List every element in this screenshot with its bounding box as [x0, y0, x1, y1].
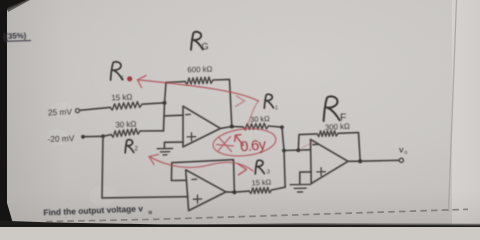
U3 plus pin label: [193, 195, 201, 203]
label RF handwritten: [324, 96, 340, 121]
label RG handwritten: [191, 32, 203, 50]
op-amp U3 triangle: [186, 170, 226, 211]
photo dark left edge: [0, 0, 28, 227]
resistor R1 15k body: [110, 102, 142, 110]
svg-text:o: o: [405, 150, 408, 156]
footer: Find the output voltage vo: [43, 203, 152, 217]
wire Rb to column: [272, 187, 286, 190]
red chevron at R3: [238, 164, 247, 175]
torn perforation dash line: [46, 209, 468, 221]
label R2 handwritten: [125, 140, 134, 153]
red X scribble on U1 output: [217, 137, 234, 152]
wire long drop to follower: [102, 136, 103, 198]
wire U3 feedback loop: [171, 160, 234, 193]
wire RG to right vertical: [213, 79, 232, 126]
red arrow to U1 output node: [235, 135, 244, 146]
svg-text:25 mV: 25 mV: [48, 107, 73, 118]
node: 25 mV input terminal: [76, 109, 80, 113]
resistor R3 15k body: [249, 187, 272, 193]
node D column mid dot: [282, 149, 286, 153]
U1 minus pin label: [186, 113, 191, 115]
op-amp U1 triangle: [183, 106, 221, 147]
wire R3 to column: [269, 126, 283, 127]
ground G2: [290, 184, 310, 192]
svg-text:o: o: [148, 210, 152, 216]
U2 plus pin label: [317, 168, 325, 176]
U1 plus pin label: [187, 133, 195, 141]
wire RF feedback left/top: [298, 134, 317, 150]
svg-text:F: F: [340, 112, 346, 124]
red long arrow from answer to R1: [246, 101, 259, 131]
svg-text:|(35%): |(35%): [3, 31, 27, 41]
photo dark bottom edge: [0, 221, 480, 227]
node: -20 mV input terminal: [81, 135, 85, 139]
node U1 output feedback dot: [230, 125, 234, 129]
wire -20mV to junction: [85, 135, 103, 137]
red ellipse around 0.64: [212, 126, 277, 159]
svg-text:15 kΩ: 15 kΩ: [111, 92, 133, 102]
svg-text:1: 1: [275, 106, 278, 112]
label R1 (stage2 30k) handwritten: [264, 94, 273, 108]
svg-text:3: 3: [267, 170, 270, 176]
node C column top dot: [280, 125, 284, 129]
wire U1 noninverting to ground: [164, 142, 183, 148]
wire summing vertical: [164, 83, 167, 132]
wire junction to R2: [103, 135, 111, 137]
wire to U2 inverting input: [284, 149, 311, 152]
svg-text:30 kΩ: 30 kΩ: [250, 114, 270, 124]
svg-text:15 kΩ: 15 kΩ: [251, 177, 271, 187]
node A summing junction dot: [163, 101, 167, 105]
ground G1: [157, 149, 172, 155]
label R1 (15k) handwritten: [111, 62, 123, 80]
node U2 output dot: [358, 159, 362, 163]
svg-text:600 kΩ: 600 kΩ: [187, 65, 212, 75]
wire U2 noninverting to ground: [300, 172, 311, 184]
red tick at U2 input: [303, 141, 316, 148]
svg-text:0.6y: 0.6y: [239, 136, 267, 155]
U3 minus pin label: [192, 178, 197, 180]
label R3 handwritten: [255, 160, 264, 174]
node B junction dot: [101, 134, 105, 138]
header problem number (35%): [3, 31, 31, 41]
wire column vertical: [282, 127, 285, 187]
wire R2 to summing vertical: [140, 130, 164, 132]
node E feedback tap dot: [296, 148, 300, 152]
wire U1 output: [221, 127, 244, 129]
wire U3 output: [226, 191, 249, 192]
svg-text:G: G: [202, 42, 209, 52]
node: output terminal vo: [399, 158, 403, 162]
wire RG feedback left/top: [166, 81, 185, 84]
svg-text:-20 mV: -20 mV: [47, 133, 75, 144]
resistor R1 (stage-2) 30k body: [243, 123, 269, 129]
node U3 output dot: [232, 190, 236, 194]
svg-text:30 kΩ: 30 kΩ: [115, 119, 137, 129]
wire to U1 inverting input: [164, 114, 183, 117]
op-amp U2 triangle: [311, 139, 349, 183]
svg-text:1: 1: [121, 76, 124, 82]
wire to U3 noninverting input: [102, 197, 188, 198]
resistor RG 600k body: [185, 77, 213, 85]
resistor R2 30k body: [111, 129, 140, 138]
wire R1 to summing node: [142, 103, 165, 104]
wire RF to right vertical: [338, 133, 360, 162]
red swoosh arrow across follower: [149, 157, 253, 171]
svg-text:V: V: [399, 148, 404, 155]
wire 25mV to R1: [80, 107, 110, 110]
red chevron at R1 stage2 label: [236, 96, 245, 107]
right paper fold edge: [449, 0, 457, 212]
wire U2 output: [348, 160, 399, 161]
red dot next to R1: [127, 76, 132, 81]
resistor RF 300k body: [317, 131, 338, 137]
U2 minus pin label: [313, 143, 318, 145]
